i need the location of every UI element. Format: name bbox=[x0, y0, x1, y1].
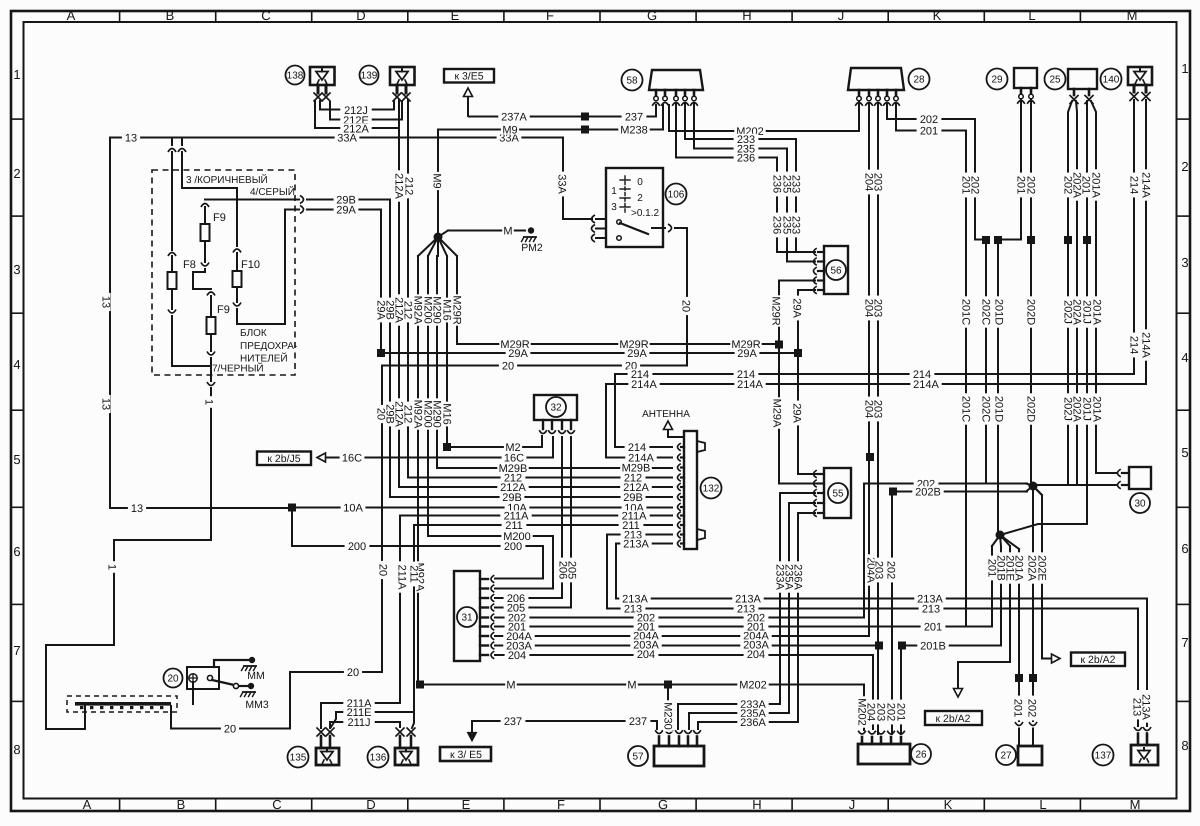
svg-text:20: 20 bbox=[375, 408, 387, 420]
switch 106 input stubs bbox=[592, 215, 607, 242]
label М29R bbox=[451, 294, 463, 325]
svg-text:213: 213 bbox=[922, 603, 940, 615]
svg-text:20: 20 bbox=[502, 360, 514, 372]
svg-text:8: 8 bbox=[13, 742, 20, 757]
label 201А bbox=[1091, 393, 1103, 424]
label 212 bbox=[402, 298, 414, 323]
wire 20 from switch bbox=[652, 224, 687, 366]
wire 200 bbox=[292, 508, 543, 579]
svg-text:М29R: М29R bbox=[451, 295, 463, 324]
wire 29A exit bbox=[285, 206, 381, 350]
svg-text:214: 214 bbox=[1128, 176, 1140, 194]
svg-text:212A: 212A bbox=[343, 123, 369, 135]
junction 201B bbox=[898, 642, 906, 735]
label 236А bbox=[792, 561, 804, 592]
wire M202 top bbox=[669, 100, 859, 131]
label 204 bbox=[865, 700, 877, 725]
switch 20 plus contact bbox=[189, 674, 197, 682]
label 20 bbox=[377, 561, 389, 579]
label М29В bbox=[497, 463, 528, 475]
svg-text:М29В: М29В bbox=[499, 463, 528, 475]
label 203 bbox=[872, 170, 884, 195]
junction M230 bbox=[664, 681, 672, 730]
svg-text:13: 13 bbox=[100, 398, 112, 410]
label 201J bbox=[1081, 393, 1093, 424]
label 213А bbox=[914, 593, 945, 605]
svg-text:202: 202 bbox=[1025, 176, 1037, 194]
svg-text:3: 3 bbox=[13, 262, 20, 277]
label 203 bbox=[872, 296, 884, 321]
svg-text:E: E bbox=[451, 8, 460, 23]
svg-text:5: 5 bbox=[1181, 445, 1188, 460]
wire to MM3 ground bbox=[212, 680, 269, 711]
svg-text:1: 1 bbox=[1181, 61, 1188, 76]
lamp 138 bbox=[286, 66, 335, 102]
wire 211 bbox=[414, 524, 672, 526]
label F10 bbox=[241, 259, 260, 271]
svg-text:140: 140 bbox=[1103, 75, 1120, 86]
junction star M bbox=[418, 231, 457, 257]
label 202 bbox=[744, 612, 769, 624]
label 204 bbox=[863, 170, 875, 195]
wire 213A horizontal bbox=[616, 599, 1147, 690]
wire M29R vertical bbox=[456, 256, 458, 344]
label 201 bbox=[921, 621, 946, 633]
svg-text:211А: 211А bbox=[396, 565, 408, 591]
svg-text:136: 136 bbox=[370, 753, 387, 764]
svg-text:М: М bbox=[506, 679, 515, 691]
wire 214 bbox=[615, 100, 1134, 447]
svg-text:20: 20 bbox=[680, 300, 692, 312]
wire 16C bbox=[317, 437, 553, 462]
svg-text:214А: 214А bbox=[737, 379, 763, 391]
label 13 bbox=[128, 503, 146, 515]
label 200 bbox=[345, 541, 370, 553]
label 10А bbox=[505, 502, 530, 514]
label 212А bbox=[620, 482, 651, 494]
label 202 bbox=[914, 478, 939, 490]
svg-text:213А: 213А bbox=[623, 538, 649, 550]
svg-text:26: 26 bbox=[915, 750, 927, 761]
wire 201A from 25 bbox=[1091, 101, 1117, 473]
svg-text:237: 237 bbox=[504, 716, 522, 728]
svg-text:211: 211 bbox=[408, 565, 420, 583]
svg-text:7: 7 bbox=[1181, 635, 1188, 650]
label F9 top bbox=[213, 212, 226, 224]
label 211А bbox=[396, 561, 408, 592]
wire M29A bbox=[779, 281, 822, 484]
svg-text:М9: М9 bbox=[431, 173, 443, 188]
label 213А bbox=[1140, 691, 1152, 722]
label 233 bbox=[790, 213, 802, 238]
label 201 bbox=[917, 125, 942, 137]
label М16 bbox=[441, 298, 453, 323]
svg-text:237: 237 bbox=[625, 111, 643, 123]
lamp 135 bbox=[288, 728, 340, 768]
svg-text:201: 201 bbox=[895, 703, 907, 721]
junction 202A bbox=[1029, 674, 1037, 746]
label 212А bbox=[393, 170, 405, 201]
arrow to k 3/E5 bottom bbox=[468, 721, 477, 741]
svg-text:203: 203 bbox=[875, 703, 887, 721]
junction 201J bbox=[1083, 236, 1091, 244]
label 211 bbox=[619, 520, 644, 532]
wire 236A bbox=[698, 513, 815, 729]
svg-text:13: 13 bbox=[100, 296, 112, 308]
svg-text:204: 204 bbox=[747, 649, 765, 661]
label М238 bbox=[618, 124, 649, 136]
svg-text:237: 237 bbox=[629, 716, 647, 728]
connector 29 bbox=[987, 68, 1038, 104]
label box k 2b/A2 left bbox=[925, 711, 982, 725]
svg-text:237А: 237А bbox=[501, 111, 527, 123]
svg-text:M: M bbox=[1127, 8, 1138, 23]
label 235А bbox=[783, 561, 795, 592]
label М9 bbox=[431, 172, 443, 190]
label 235 bbox=[734, 143, 759, 155]
label 201В bbox=[917, 640, 948, 652]
svg-text:C: C bbox=[272, 797, 281, 812]
wire 29B bus bbox=[390, 496, 672, 498]
relay 55 bbox=[814, 468, 852, 518]
svg-text:H: H bbox=[752, 797, 761, 812]
label 29В bbox=[384, 402, 396, 427]
label 29А bbox=[791, 401, 803, 426]
svg-text:33А: 33А bbox=[556, 174, 568, 194]
lamp 136 bbox=[368, 728, 419, 768]
label 202 bbox=[885, 700, 897, 725]
svg-text:200: 200 bbox=[504, 541, 522, 553]
svg-text:K: K bbox=[933, 8, 942, 23]
fuse F10 bbox=[233, 188, 286, 324]
label М200 bbox=[422, 398, 434, 429]
svg-text:202В: 202В bbox=[915, 486, 941, 498]
label 202Е bbox=[1036, 552, 1048, 583]
svg-text:к 2b/А2: к 2b/А2 bbox=[1081, 654, 1116, 666]
label М29В bbox=[620, 462, 651, 474]
wire fuse entry right bbox=[178, 138, 237, 189]
svg-text:32: 32 bbox=[550, 403, 562, 414]
wire 235A bbox=[689, 503, 815, 729]
svg-text:201: 201 bbox=[920, 125, 938, 137]
label М290 bbox=[431, 294, 443, 325]
label 206 bbox=[557, 558, 569, 583]
label 214 bbox=[1128, 173, 1140, 198]
label М2 bbox=[504, 442, 522, 454]
svg-text:204: 204 bbox=[508, 650, 526, 662]
svg-text:20: 20 bbox=[224, 723, 236, 735]
wire 212A jumper bbox=[315, 101, 397, 128]
svg-text:J: J bbox=[838, 8, 845, 23]
wire plus stem bbox=[192, 682, 194, 704]
label 16С bbox=[502, 452, 527, 464]
label 203 bbox=[875, 700, 887, 725]
lamp 137 pin wires bbox=[1134, 711, 1151, 745]
connector 27 bbox=[996, 745, 1042, 765]
label 13 bbox=[100, 395, 112, 413]
wire 204 bbox=[495, 104, 869, 636]
ground PM2 bbox=[521, 227, 543, 254]
svg-text:205: 205 bbox=[566, 561, 578, 579]
label 212J bbox=[340, 105, 371, 117]
svg-text:202С: 202С bbox=[980, 299, 992, 325]
label 201А bbox=[1091, 296, 1103, 327]
wire 236 bbox=[676, 104, 815, 252]
label 202 bbox=[1025, 173, 1037, 198]
wire to MM ground bbox=[214, 657, 265, 682]
label М202 bbox=[856, 696, 868, 727]
svg-text:202Е: 202Е bbox=[1036, 555, 1048, 581]
label 201С bbox=[960, 296, 972, 327]
svg-text:М9: М9 bbox=[502, 124, 517, 136]
switch 20 bbox=[164, 667, 220, 689]
svg-text:29В: 29В bbox=[502, 492, 522, 504]
wire M bus bbox=[420, 685, 864, 731]
connector 30 bbox=[1118, 467, 1152, 513]
svg-text:137: 137 bbox=[1095, 751, 1112, 762]
svg-text:РМ2: РМ2 bbox=[521, 242, 543, 254]
wire M to ground PM2 bbox=[448, 230, 525, 232]
label 201 bbox=[986, 556, 998, 581]
label М29R bbox=[618, 339, 649, 351]
svg-text:3 /КОРИЧНЕВЫЙ: 3 /КОРИЧНЕВЫЙ bbox=[186, 173, 268, 186]
junction 29A bundle bbox=[377, 349, 385, 357]
wire 237A-237 bbox=[469, 105, 656, 117]
wire 233 bbox=[685, 104, 815, 252]
junction 29A relay bbox=[794, 349, 802, 357]
junction M92A bbox=[416, 681, 424, 689]
label 201D bbox=[993, 393, 1005, 424]
label 4/seryi bbox=[250, 185, 295, 198]
svg-text:М: М bbox=[627, 679, 636, 691]
fuse F9 bottom bbox=[207, 292, 216, 366]
label 213 bbox=[1131, 695, 1143, 720]
wire 211A bbox=[400, 515, 672, 517]
svg-text:B: B bbox=[177, 797, 186, 812]
svg-text:2: 2 bbox=[13, 166, 20, 181]
svg-text:203: 203 bbox=[873, 561, 885, 579]
connector 28 bbox=[848, 68, 930, 106]
svg-text:C: C bbox=[261, 8, 270, 23]
label 204А bbox=[630, 630, 661, 642]
fuse box dashed outline bbox=[152, 170, 295, 375]
label 204А bbox=[865, 554, 877, 585]
label 204 bbox=[505, 650, 530, 662]
label 204А bbox=[740, 630, 771, 642]
svg-text:7/ЧЕРНЫЙ: 7/ЧЕРНЫЙ bbox=[212, 362, 264, 375]
svg-text:202: 202 bbox=[1026, 699, 1038, 717]
wire 206 bbox=[495, 437, 562, 598]
wire 202B drop to 26 bbox=[891, 492, 893, 735]
wire 202A from 25 bbox=[1076, 101, 1077, 485]
label 212 bbox=[501, 472, 526, 484]
label 13 bbox=[122, 132, 140, 144]
label 211Е bbox=[343, 707, 374, 719]
label 202А bbox=[1071, 169, 1083, 200]
junction 202D bbox=[1027, 236, 1035, 244]
label 205 bbox=[566, 558, 578, 583]
svg-text:214А: 214А bbox=[1140, 332, 1152, 358]
svg-text:13: 13 bbox=[131, 503, 143, 515]
label 203 bbox=[873, 558, 885, 583]
svg-text:201D: 201D bbox=[993, 396, 1005, 422]
svg-text:132: 132 bbox=[703, 484, 720, 495]
label 202 bbox=[505, 612, 530, 624]
label 214А bbox=[1140, 329, 1152, 360]
junction M29R bbox=[775, 341, 783, 349]
label 214А bbox=[734, 379, 765, 391]
svg-text:233: 233 bbox=[790, 216, 802, 234]
label 214А bbox=[1140, 169, 1152, 200]
label 29А bbox=[506, 348, 531, 360]
label 29В bbox=[621, 492, 646, 504]
svg-text:F9: F9 bbox=[217, 304, 230, 316]
svg-text:29А: 29А bbox=[791, 403, 803, 423]
antenna bbox=[642, 409, 690, 437]
wire 202B bbox=[889, 488, 1027, 496]
label М bbox=[502, 225, 514, 237]
wire 13-33A top bbox=[110, 137, 563, 139]
junction 201D splice bbox=[994, 236, 1002, 531]
wire 212J bbox=[320, 101, 394, 110]
label 202 bbox=[969, 173, 981, 198]
wire 1 bbox=[46, 366, 215, 729]
svg-text:F: F bbox=[546, 8, 554, 23]
svg-text:201: 201 bbox=[960, 176, 972, 194]
label 33А bbox=[556, 172, 568, 197]
svg-text:29А: 29А bbox=[375, 300, 387, 320]
wire 20 bundle vertical bbox=[381, 366, 383, 673]
label 201В bbox=[995, 552, 1007, 583]
label М202 bbox=[734, 126, 765, 138]
label 237 bbox=[626, 716, 651, 728]
connector 31 bbox=[454, 571, 494, 661]
arrow to k 3/E5 top bbox=[464, 88, 473, 116]
label 213 bbox=[919, 603, 944, 615]
label 212А bbox=[393, 398, 405, 429]
label 203А bbox=[630, 639, 661, 651]
lamp 137 bbox=[1093, 745, 1159, 766]
label 212A bbox=[340, 123, 371, 135]
svg-text:201: 201 bbox=[637, 621, 655, 633]
wire 10A bbox=[292, 507, 672, 509]
label 237 bbox=[501, 716, 526, 728]
svg-text:29: 29 bbox=[991, 75, 1003, 86]
label М29R bbox=[770, 295, 782, 326]
wire M200 bbox=[428, 256, 553, 589]
junction 201A bbox=[1015, 674, 1023, 746]
label 29В bbox=[384, 298, 396, 323]
label 29В bbox=[621, 492, 646, 504]
svg-text:20: 20 bbox=[347, 667, 359, 679]
svg-text:20: 20 bbox=[377, 564, 389, 576]
wire 202 main bbox=[864, 483, 1027, 485]
connector 25 bbox=[1045, 69, 1098, 104]
label 211А bbox=[343, 698, 374, 710]
svg-text:H: H bbox=[742, 8, 751, 23]
label 13 bbox=[100, 293, 112, 311]
svg-text:D: D bbox=[366, 797, 375, 812]
wire M290-M29B bbox=[437, 256, 672, 468]
label 202D bbox=[1025, 393, 1037, 424]
svg-text:F10: F10 bbox=[241, 259, 260, 271]
label 20 bbox=[622, 360, 640, 372]
label М9 bbox=[501, 124, 519, 136]
label 1 bbox=[203, 396, 215, 408]
label 236 bbox=[734, 152, 759, 164]
svg-text:235: 235 bbox=[781, 175, 793, 193]
label 204 bbox=[863, 397, 875, 422]
svg-text:139: 139 bbox=[361, 71, 378, 82]
svg-text:25: 25 bbox=[1049, 75, 1061, 86]
label box k 3/E5 bottom bbox=[440, 747, 491, 761]
label 214 bbox=[734, 369, 759, 381]
svg-text:к 2b/А2: к 2b/А2 bbox=[936, 713, 971, 725]
svg-text:202D: 202D bbox=[1025, 396, 1037, 422]
connector 132 bbox=[678, 431, 722, 549]
label 202 bbox=[634, 612, 659, 624]
label 20 bbox=[680, 297, 692, 315]
label 20 bbox=[499, 360, 517, 372]
label М29R bbox=[499, 339, 530, 351]
label box k 2b/A2 right bbox=[1071, 653, 1125, 667]
wire 213A stub bbox=[616, 544, 672, 599]
svg-text:29А: 29А bbox=[336, 204, 356, 216]
label 33А bbox=[335, 132, 360, 144]
svg-text:213: 213 bbox=[1131, 698, 1143, 716]
svg-text:203: 203 bbox=[872, 299, 884, 317]
wire 211E bbox=[331, 712, 414, 727]
svg-text:211: 211 bbox=[505, 520, 523, 532]
junction 204/204A bbox=[866, 453, 874, 461]
svg-text:135: 135 bbox=[290, 753, 307, 764]
label 202J bbox=[1062, 393, 1074, 424]
svg-text:D: D bbox=[356, 8, 365, 23]
label 1 bbox=[106, 561, 118, 573]
label 29А bbox=[791, 296, 803, 321]
label 20 bbox=[344, 667, 362, 679]
wire M9-M238 bbox=[438, 105, 663, 130]
wire 201B fan bbox=[902, 546, 1001, 646]
label 211J bbox=[343, 717, 374, 729]
svg-text:М29R: М29R bbox=[770, 296, 782, 325]
wire 201E fan bbox=[954, 546, 1011, 697]
label 212 bbox=[402, 402, 414, 427]
svg-text:к 3/Е5: к 3/Е5 bbox=[454, 71, 483, 83]
label 214 bbox=[625, 442, 650, 454]
label 236 bbox=[771, 172, 783, 197]
svg-text:235: 235 bbox=[737, 143, 755, 155]
label 204 bbox=[634, 649, 659, 661]
connector 58 bbox=[622, 70, 704, 106]
label 211 bbox=[408, 562, 420, 587]
svg-text:201: 201 bbox=[508, 621, 526, 633]
label 202J bbox=[1062, 296, 1074, 327]
svg-text:ММ: ММ bbox=[247, 670, 265, 682]
label М92А bbox=[414, 561, 426, 592]
label 201 bbox=[960, 173, 972, 198]
label 237А bbox=[498, 111, 529, 123]
label 204А bbox=[503, 631, 534, 643]
svg-text:58: 58 bbox=[626, 76, 638, 87]
svg-text:138: 138 bbox=[287, 71, 304, 82]
svg-text:к 3/ Е5: к 3/ Е5 bbox=[450, 749, 482, 761]
svg-text:1: 1 bbox=[106, 564, 118, 570]
svg-text:2: 2 bbox=[637, 193, 643, 204]
label 214 bbox=[910, 369, 935, 381]
svg-text:>0.1.2: >0.1.2 bbox=[631, 208, 660, 219]
svg-text:201: 201 bbox=[1012, 699, 1024, 717]
